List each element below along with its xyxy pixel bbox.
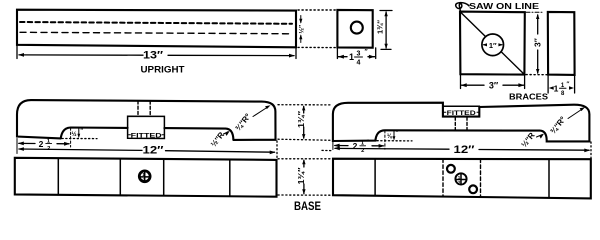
right base elevation outline [333, 103, 590, 142]
plan division line 4 [229, 160, 231, 197]
svg-text:UPRIGHT: UPRIGHT [141, 65, 185, 76]
dimension 1 3/4" plan width [303, 160, 305, 167]
svg-text:1¾″: 1¾″ [297, 167, 306, 184]
svg-text:2: 2 [353, 141, 358, 151]
svg-text:12″: 12″ [454, 144, 476, 156]
dimension 2 1/2" left base [19, 142, 35, 144]
fitted block left base [128, 116, 165, 138]
dotted lead-in left of 12" dimension [322, 149, 331, 151]
svg-text:2: 2 [458, 180, 461, 185]
svg-text:FITTED: FITTED [131, 132, 162, 139]
dotted extension of right base bottom [377, 140, 412, 142]
small 5/8" step dimension right base [393, 136, 396, 140]
upright hidden line lower (light dashed) [20, 32, 292, 34]
svg-text:BRACES: BRACES [509, 91, 548, 101]
1" hole in brace [482, 34, 504, 56]
label 3/4"R left base [233, 112, 252, 133]
dimension 3" below brace [460, 75, 462, 89]
dotted connector top between base plans [278, 158, 332, 160]
svg-text:3: 3 [357, 51, 361, 58]
svg-text:″: ″ [365, 49, 368, 56]
dotted connector bottom between base elevations [278, 139, 332, 140]
svg-text:2: 2 [142, 177, 145, 182]
left base elevation outline [17, 100, 276, 140]
dotted extension of left base bottom [62, 138, 97, 140]
left base recess line left with 1/2"R fillet [61, 128, 128, 139]
brace front view square [460, 12, 525, 75]
svg-text:1¾″: 1¾″ [297, 111, 306, 128]
countersunk hole lower right plan [469, 185, 477, 193]
dimension 1 3/4" right of end view [380, 10, 392, 12]
svg-text:″: ″ [567, 82, 570, 88]
hidden lines above fitted block [137, 101, 139, 116]
upright side view outline [17, 10, 296, 48]
label 1/2"R left base [209, 130, 226, 149]
screw symbol left base plan [139, 171, 150, 182]
upright hidden line upper (heavy dashed) [20, 22, 292, 24]
dotted connector bottom between base plans [278, 194, 332, 196]
dimension 1/2" at right end of upright [300, 16, 302, 23]
plan division line 2 [119, 159, 121, 196]
svg-text:FITTED: FITTED [447, 110, 476, 117]
dimension 12" right base [335, 147, 449, 150]
dimension 1 3/4" below end view [336, 48, 338, 59]
dotted line brace bottom to side view [526, 74, 547, 76]
svg-text:1: 1 [458, 175, 461, 180]
svg-text:SAW ON LINE: SAW ON LINE [469, 2, 540, 11]
svg-text:1: 1 [554, 84, 559, 94]
svg-text:1: 1 [349, 52, 354, 62]
svg-text:12″: 12″ [143, 145, 165, 157]
svg-text:4: 4 [357, 60, 361, 67]
dimension 1 1/8" below brace side view [547, 75, 549, 93]
hole in end view [351, 22, 363, 34]
svg-text:1¾″: 1¾″ [376, 20, 385, 34]
dimension 12" left base [19, 149, 142, 150]
right plan hidden division line 2 [480, 159, 482, 197]
hidden lines below fitted block right base [454, 117, 456, 130]
hole diameter dimension 1" [484, 44, 487, 46]
svg-text:3″: 3″ [533, 38, 543, 47]
label 1/2"R right base [519, 131, 536, 150]
right plan division line solid 1 [374, 159, 376, 196]
dotted vertical extension right edge left base [276, 141, 278, 158]
svg-text:BASE: BASE [294, 201, 321, 212]
svg-text:3″: 3″ [489, 81, 499, 91]
dash-dot extension top right of brace [526, 11, 543, 13]
screw symbol right base plan [455, 173, 466, 184]
dimension 13" extension lines [16, 45, 18, 59]
right plan division line solid 2 [548, 159, 550, 198]
dotted vertical extension right edge right base [590, 142, 592, 159]
left base recess line right with shoulder [164, 128, 233, 140]
dimension 13" line [19, 54, 143, 56]
countersunk hole upper right plan [447, 165, 455, 173]
label 3/4"R right base [548, 115, 567, 136]
svg-text:2: 2 [39, 139, 44, 149]
fitted block right base [443, 106, 479, 116]
svg-text:½″: ½″ [298, 25, 306, 34]
small 1/2" step dimension [77, 134, 80, 138]
dotted connector top between base elevations [278, 104, 332, 106]
saw diagonal line [461, 12, 486, 36]
dimension 3" vertical right of brace [537, 15, 539, 34]
svg-text:1″: 1″ [489, 41, 497, 50]
upright end view square [337, 10, 372, 48]
dotted projection lines to end view [298, 9, 336, 11]
left base plan view outline [15, 158, 277, 197]
hidden vertical at fillet tangent [70, 128, 72, 147]
plan division line 3 [163, 159, 165, 196]
hidden vertical at fillet tangent right base [384, 131, 386, 150]
brace side view rectangle [548, 12, 575, 75]
svg-text:″: ″ [367, 140, 370, 146]
svg-text:13″: 13″ [143, 50, 164, 62]
plan division line 1 [57, 158, 59, 195]
dimension 1 3/4" elevation height [303, 107, 305, 114]
svg-text:″: ″ [53, 138, 56, 144]
dimension 2 1/2" right base [335, 145, 348, 147]
right plan hidden division line 1 [442, 159, 444, 197]
saw-on-line squiggle leader [456, 3, 469, 11]
right base plan view outline [333, 159, 591, 199]
svg-text:½: ½ [71, 131, 76, 138]
